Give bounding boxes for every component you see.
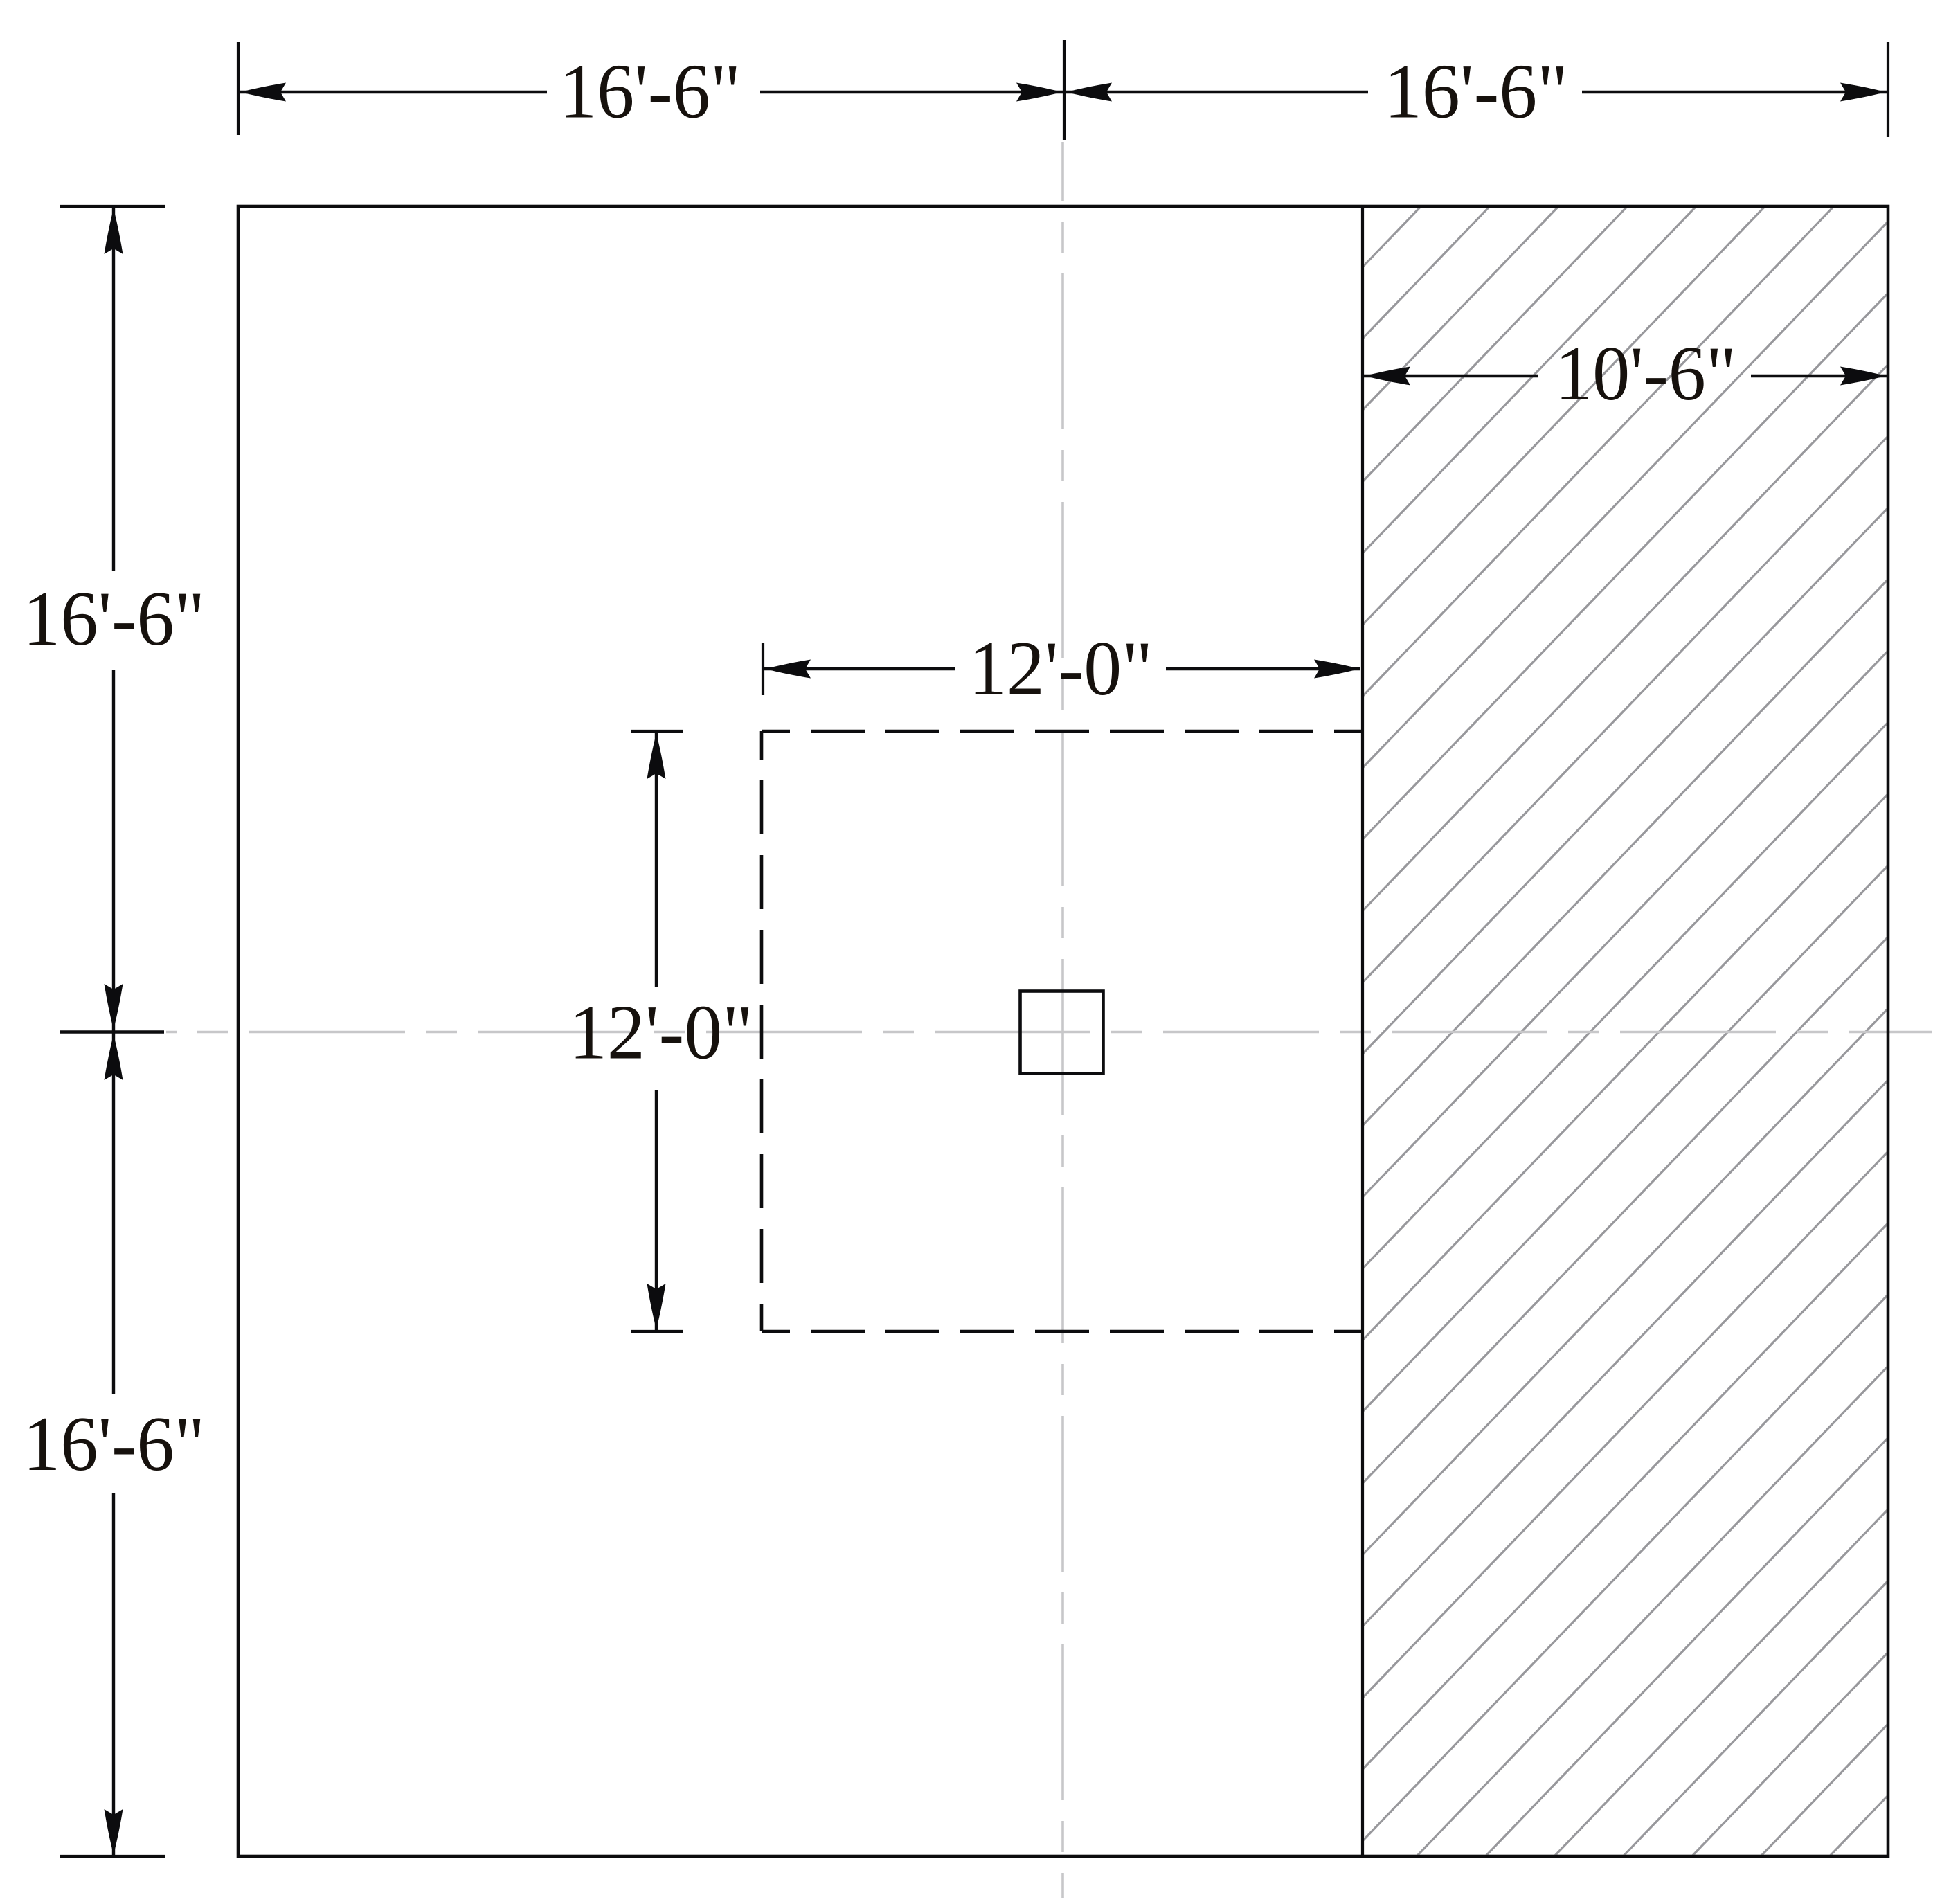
hatched zone left boundary (1361, 208, 1364, 1855)
dashed footing outline top edge (762, 730, 1362, 733)
top dimension line right segment (1582, 91, 1887, 93)
extension line at slab right edge (top dims) (1887, 42, 1889, 137)
extension line for 12-0 horizontal dim (762, 643, 764, 695)
horizontal centerline (grid line) gray dash-dot (166, 1031, 1932, 1034)
arrowhead top dim far right (1840, 83, 1886, 102)
arrowhead left dim2 top (105, 1034, 123, 1080)
tick at slab bottom (left dims) (60, 1855, 165, 1858)
arrowhead 10-6 left (1365, 367, 1410, 386)
12-0 vertical dimension line upper segment (655, 733, 658, 987)
arrowhead 12-0 horizontal left (765, 660, 811, 679)
arrowhead 12-0 vertical up (647, 733, 666, 779)
arrowhead 12-0 vertical down (647, 1284, 666, 1329)
12-0 horizontal dimension line left segment (764, 667, 955, 670)
vertical centerline (grid line) gray dash-dot (1061, 142, 1064, 1898)
left dimension line segment 3 (112, 1493, 115, 1855)
left dimension line segment 2 (112, 670, 115, 1394)
svg-text:12'-0": 12'-0" (969, 626, 1153, 712)
svg-text:12'-0": 12'-0" (569, 990, 753, 1076)
svg-text:16'-6": 16'-6" (1384, 49, 1568, 135)
12-0 horizontal dimension line right segment (1166, 667, 1360, 670)
arrowhead 10-6 right (1840, 367, 1886, 386)
arrowhead top dim2 left (1066, 83, 1112, 102)
arrowhead top dim1 right (1016, 83, 1062, 102)
extension line at centerline (top dims) (1063, 40, 1066, 140)
foundation slab outline (238, 206, 1888, 1856)
dashed footing outline left edge (760, 731, 764, 1331)
arrowhead 12-0 horizontal right (1314, 660, 1360, 679)
top dimension line 16-6 left segment (240, 91, 547, 93)
column section square (1021, 991, 1104, 1074)
svg-text:16'-6": 16'-6" (23, 576, 205, 662)
top dimension line middle segment (760, 91, 1368, 93)
svg-text:16'-6": 16'-6" (559, 49, 741, 135)
dashed footing outline bottom edge (762, 1330, 1362, 1333)
arrowhead left dim top (105, 208, 123, 254)
tick at footing bottom for 12-0 vertical dim (631, 1330, 683, 1333)
tick at slab top (left dims) (60, 205, 165, 208)
svg-text:16'-6": 16'-6" (23, 1401, 205, 1487)
10-6 dimension line right segment (1751, 375, 1887, 377)
arrowhead left dim bottom (105, 1809, 123, 1855)
tick at footing top for 12-0 vertical dim (631, 730, 683, 733)
arrowhead left dim1 bottom (105, 984, 123, 1030)
12-0 vertical dimension line lower segment (655, 1090, 658, 1330)
10-6 dimension line left segment (1364, 375, 1538, 377)
extension line at slab left edge (top dims) (237, 42, 240, 135)
arrowhead top dim far left (240, 83, 286, 102)
left dimension line segment 1 (112, 208, 115, 571)
svg-text:10'-6": 10'-6" (1555, 331, 1736, 417)
tick at centerline (left dims) (60, 1030, 164, 1034)
